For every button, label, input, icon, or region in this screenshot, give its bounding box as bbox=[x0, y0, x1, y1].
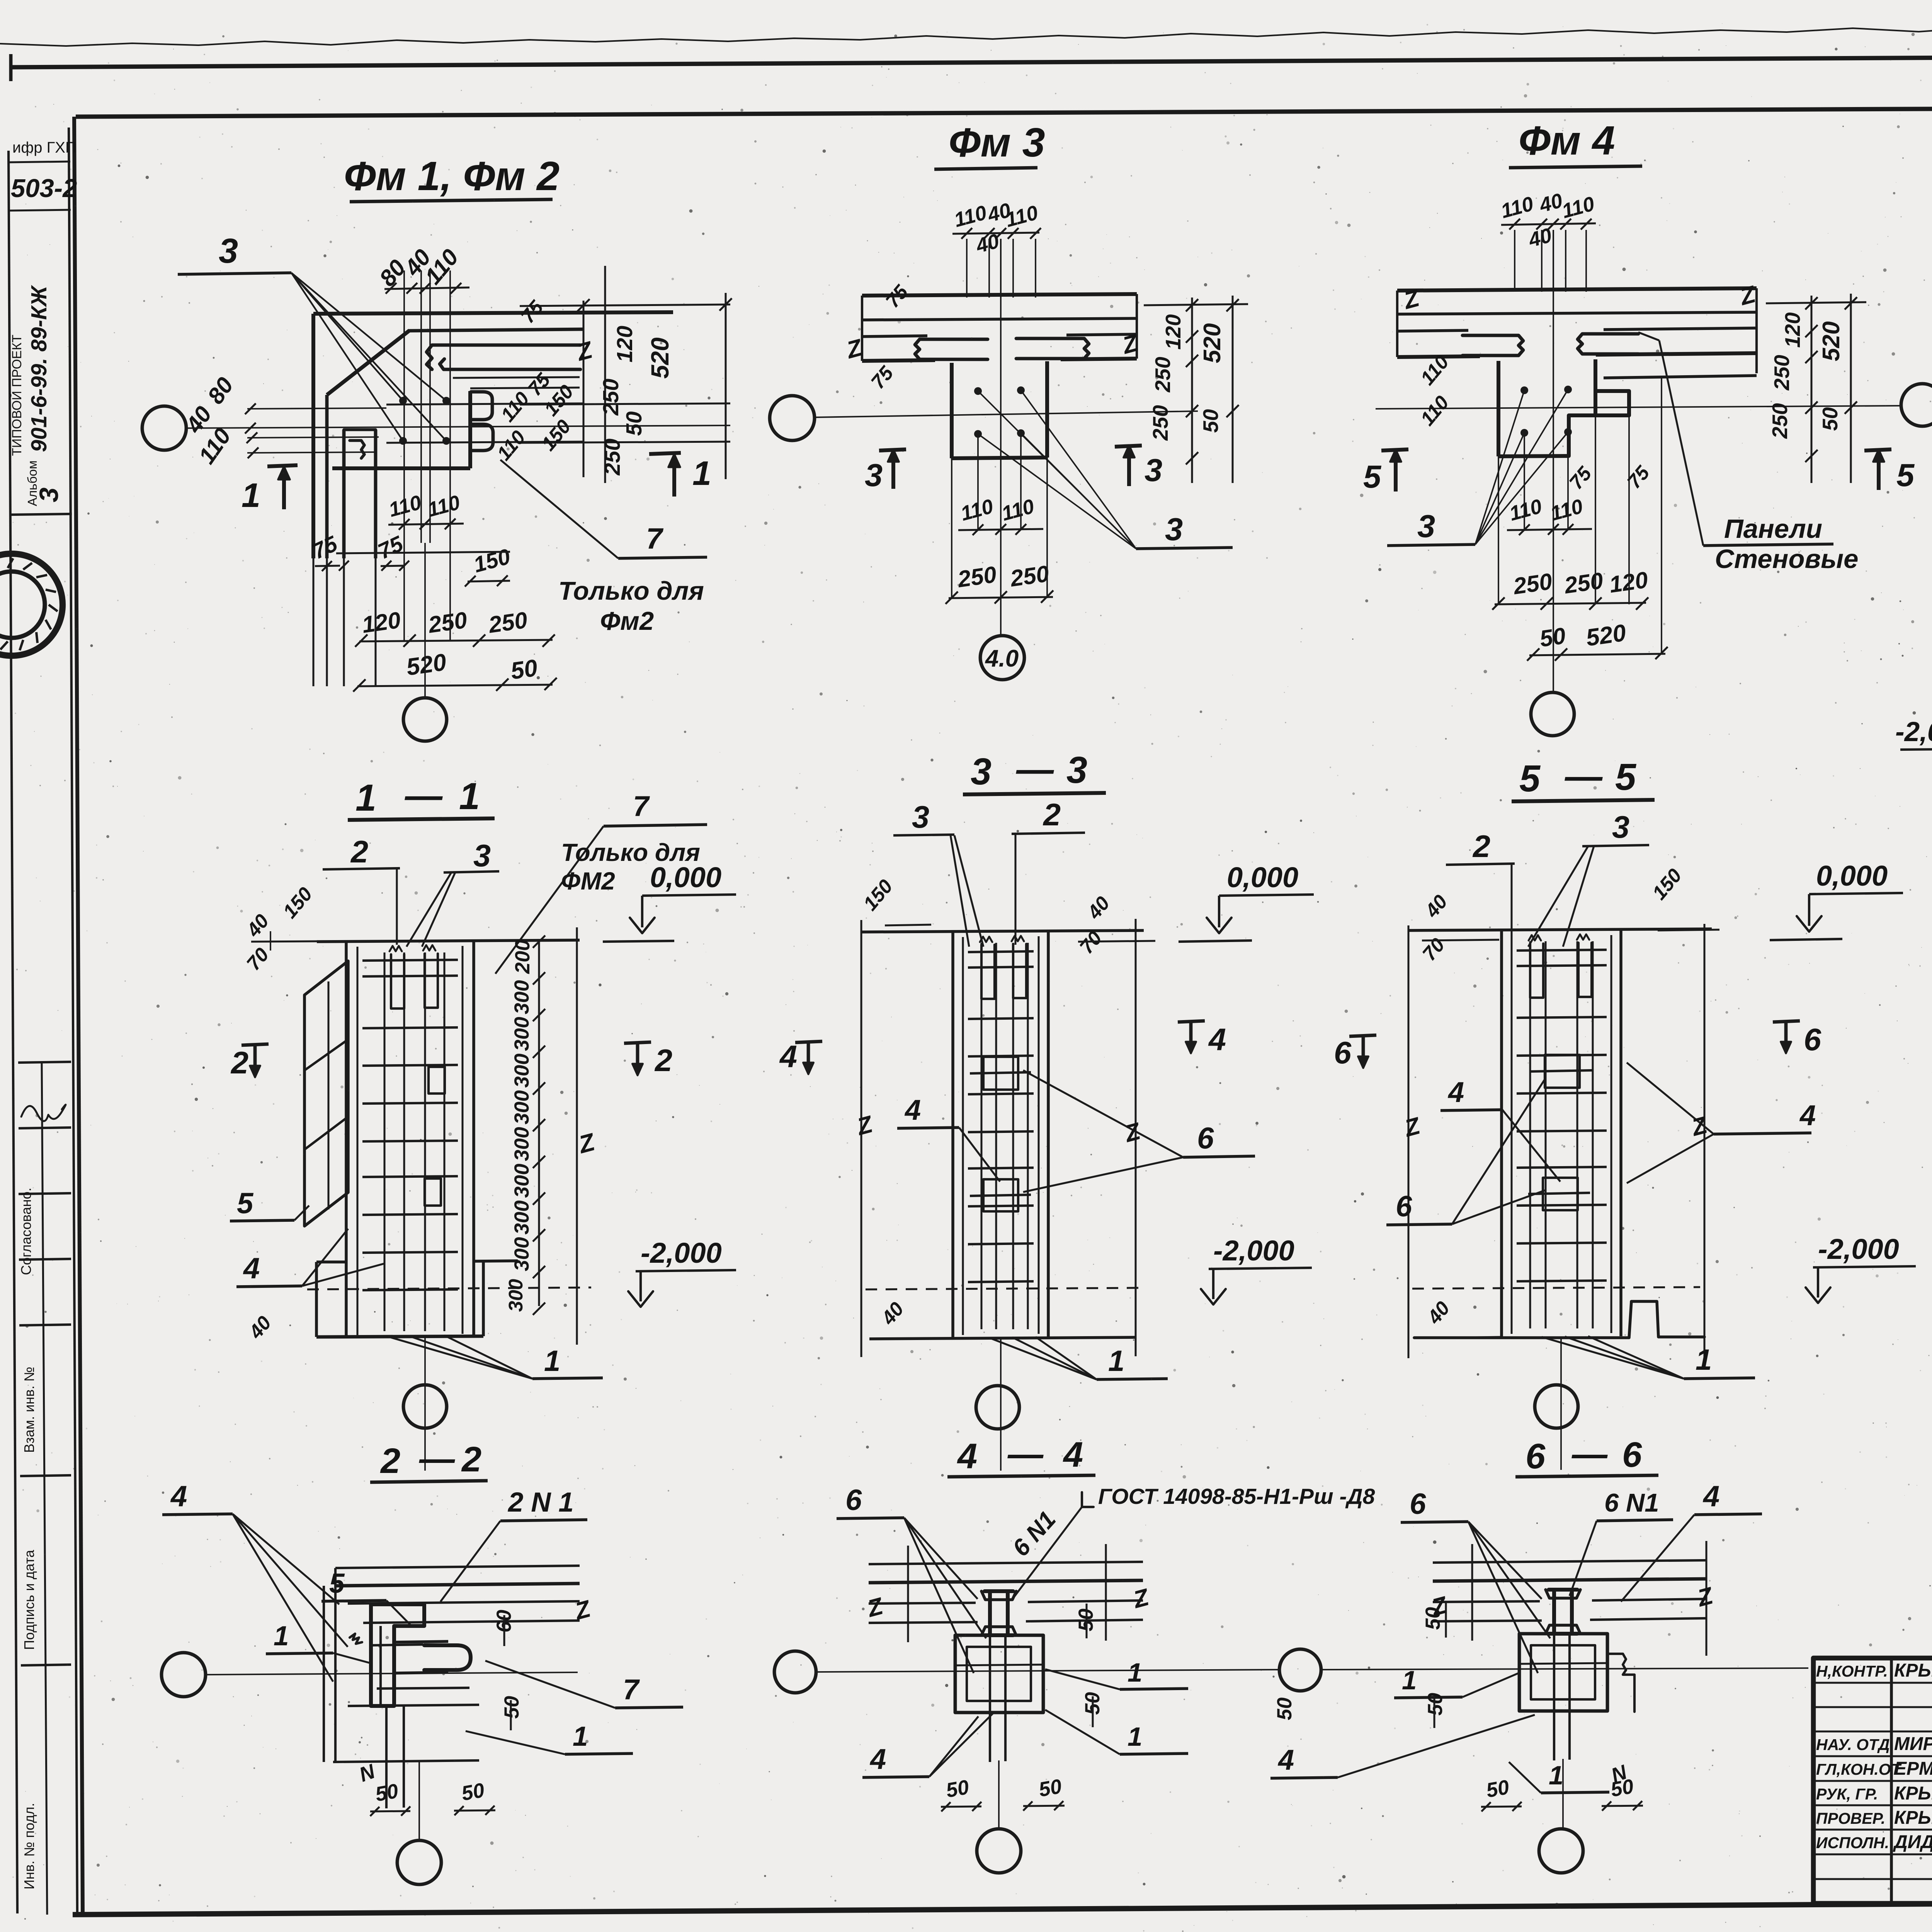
svg-text:-2,000: -2,000 bbox=[1818, 1233, 1899, 1265]
svg-text:50: 50 bbox=[622, 411, 646, 436]
svg-text:КРЫЛОВА: КРЫЛОВА bbox=[1894, 1783, 1932, 1804]
svg-text:N: N bbox=[356, 1760, 379, 1786]
axis circle bottom 3-3 bbox=[976, 1386, 1019, 1429]
4-4 I-beam bbox=[985, 1591, 1013, 1635]
svg-text:6: 6 bbox=[1804, 1022, 1821, 1057]
svg-text:110: 110 bbox=[420, 244, 464, 289]
1-1 foundation bottom bbox=[316, 1260, 346, 1264]
svg-text:110: 110 bbox=[958, 495, 996, 526]
svg-text:150: 150 bbox=[537, 415, 575, 455]
svg-text:1: 1 bbox=[1128, 1722, 1142, 1752]
svg-text:150: 150 bbox=[279, 883, 316, 922]
svg-text:300: 300 bbox=[510, 980, 533, 1014]
svg-text:—: — bbox=[419, 1439, 455, 1478]
3-3 mid plate upper bbox=[983, 1057, 1018, 1090]
svg-text:250: 250 bbox=[426, 607, 468, 638]
svg-text:120: 120 bbox=[612, 326, 637, 362]
1-1 wall panel left bbox=[304, 961, 348, 1226]
svg-text:901-6-99. 89-КЖ: 901-6-99. 89-КЖ bbox=[27, 285, 51, 452]
svg-text:Z: Z bbox=[1130, 1584, 1152, 1614]
svg-text:6: 6 bbox=[1334, 1036, 1352, 1070]
svg-text:4: 4 bbox=[869, 1743, 886, 1775]
Fm4 wall band bbox=[1397, 288, 1757, 291]
3-3 hook left bbox=[981, 945, 995, 999]
svg-text:40: 40 bbox=[1420, 891, 1452, 922]
svg-text:520: 520 bbox=[1199, 323, 1226, 363]
sidebar right edge line 1 bbox=[69, 128, 77, 1913]
svg-text:ИСПОЛН.: ИСПОЛН. bbox=[1816, 1834, 1889, 1852]
axis line horizontal bbox=[187, 425, 730, 428]
svg-text:Фм 4: Фм 4 bbox=[1519, 118, 1615, 163]
4-4 column below bbox=[955, 1635, 1043, 1713]
title block outer bbox=[1813, 1658, 1932, 1903]
svg-text:1: 1 bbox=[241, 476, 260, 514]
svg-text:Подпись и дата: Подпись и дата bbox=[21, 1549, 37, 1650]
2-2 joint profile bbox=[371, 1604, 424, 1706]
svg-text:ТИПОВОЙ ПРОЕКТ: ТИПОВОЙ ПРОЕКТ bbox=[10, 335, 24, 456]
svg-text:Z: Z bbox=[1121, 1118, 1144, 1148]
svg-text:2: 2 bbox=[461, 1440, 481, 1479]
svg-text:4: 4 bbox=[1277, 1744, 1294, 1776]
svg-text:Фм 3: Фм 3 bbox=[949, 120, 1045, 165]
svg-text:4: 4 bbox=[957, 1437, 977, 1476]
axis vertical Fm4 bbox=[1553, 230, 1554, 692]
svg-text:75: 75 bbox=[1565, 462, 1596, 493]
svg-text:110: 110 bbox=[999, 495, 1037, 526]
svg-text:РУК, ГР.: РУК, ГР. bbox=[1816, 1785, 1878, 1803]
axis circle bottom 2-2 bbox=[397, 1840, 441, 1884]
axis circle left 2-2 bbox=[162, 1653, 206, 1697]
svg-text:Стеновые: Стеновые bbox=[1715, 544, 1858, 574]
svg-text:7: 7 bbox=[633, 790, 650, 822]
extension vertical bbox=[403, 270, 405, 543]
svg-text:—: — bbox=[1007, 1434, 1044, 1474]
svg-text:6: 6 bbox=[1622, 1435, 1642, 1475]
svg-text:300: 300 bbox=[510, 1017, 533, 1051]
svg-text:200: 200 bbox=[511, 940, 534, 974]
svg-text:2 N 1: 2 N 1 bbox=[507, 1487, 574, 1518]
axis vertical Fm3 bbox=[1000, 239, 1002, 635]
svg-text:3: 3 bbox=[971, 750, 992, 793]
svg-text:ифр ГХП: ифр ГХП bbox=[12, 139, 77, 156]
svg-text:110: 110 bbox=[952, 201, 989, 232]
svg-text:4: 4 bbox=[904, 1094, 921, 1126]
svg-text:1: 1 bbox=[459, 775, 480, 817]
svg-text:Z: Z bbox=[573, 337, 596, 367]
svg-text:70: 70 bbox=[242, 944, 273, 975]
sidebar signature boxes bbox=[18, 1062, 71, 1063]
channel right bbox=[1016, 338, 1089, 359]
2-2 lower part bbox=[385, 1706, 388, 1808]
svg-text:6: 6 bbox=[845, 1484, 862, 1517]
channel profile top bbox=[427, 345, 580, 369]
svg-text:7: 7 bbox=[623, 1673, 640, 1706]
5-5 hook right bbox=[1578, 943, 1592, 997]
svg-text:—: — bbox=[1571, 1434, 1608, 1474]
svg-text:120: 120 bbox=[1781, 312, 1804, 348]
svg-text:250: 250 bbox=[1148, 405, 1172, 441]
svg-text:Z: Z bbox=[1401, 1112, 1423, 1143]
svg-text:6: 6 bbox=[1396, 1190, 1412, 1223]
svg-text:0,000: 0,000 bbox=[650, 861, 721, 893]
Fm3 right dims bbox=[1191, 298, 1193, 483]
3-3 bottom bbox=[869, 1337, 1136, 1339]
svg-text:300: 300 bbox=[510, 1090, 533, 1124]
svg-text:-2,000: -2,000 bbox=[1213, 1235, 1294, 1267]
svg-text:150: 150 bbox=[471, 544, 513, 578]
3-3 hook right bbox=[1013, 944, 1026, 998]
svg-text:250: 250 bbox=[1511, 568, 1553, 599]
svg-text:250: 250 bbox=[1151, 357, 1175, 393]
svg-text:50: 50 bbox=[1199, 409, 1223, 433]
svg-text:ПРОВЕР.: ПРОВЕР. bbox=[1816, 1810, 1885, 1827]
svg-text:40: 40 bbox=[244, 1312, 276, 1343]
svg-text:2: 2 bbox=[1472, 829, 1490, 864]
svg-text:4: 4 bbox=[1063, 1435, 1083, 1475]
svg-text:КРЫЛОВА: КРЫЛОВА bbox=[1894, 1808, 1932, 1828]
axis circle bottom 6-6 bbox=[1539, 1829, 1583, 1873]
Fm1 rebar dots bbox=[399, 397, 407, 405]
svg-text:110: 110 bbox=[1560, 192, 1597, 223]
svg-text:150: 150 bbox=[859, 875, 897, 915]
svg-text:4: 4 bbox=[1702, 1480, 1719, 1513]
4-4 GOST label bbox=[1082, 1492, 1094, 1507]
2-2 panel lines bbox=[335, 1566, 580, 1568]
6-6 axis line bbox=[1322, 1668, 1808, 1670]
svg-text:Z: Z bbox=[1119, 330, 1141, 360]
svg-text:4: 4 bbox=[1208, 1022, 1226, 1057]
svg-text:1: 1 bbox=[1549, 1760, 1563, 1790]
Fm1 section mark 1 right bbox=[649, 453, 681, 454]
extension vertical bbox=[429, 270, 431, 543]
svg-text:3: 3 bbox=[1145, 452, 1162, 488]
svg-text:—: — bbox=[405, 774, 443, 816]
svg-text:3: 3 bbox=[1165, 511, 1183, 547]
svg-text:1: 1 bbox=[573, 1721, 588, 1752]
svg-text:6: 6 bbox=[1526, 1437, 1546, 1476]
svg-text:250: 250 bbox=[1770, 355, 1794, 391]
svg-text:75: 75 bbox=[374, 531, 407, 564]
paper speckles bbox=[1436, 31, 1438, 33]
svg-text:50: 50 bbox=[1037, 1775, 1063, 1801]
svg-text:40: 40 bbox=[877, 1298, 908, 1329]
svg-text:300: 300 bbox=[505, 1279, 527, 1312]
svg-text:2: 2 bbox=[654, 1043, 672, 1078]
svg-text:7: 7 bbox=[646, 522, 664, 555]
svg-text:-2,000: -2,000 bbox=[641, 1237, 722, 1269]
svg-text:3: 3 bbox=[1066, 749, 1087, 791]
svg-text:110: 110 bbox=[493, 426, 530, 464]
svg-text:110: 110 bbox=[1416, 391, 1453, 430]
svg-text:4: 4 bbox=[1799, 1099, 1816, 1131]
sidebar top box divider1 bbox=[9, 162, 70, 162]
6-6 I-beam bbox=[1549, 1590, 1577, 1634]
svg-text:4.0: 4.0 bbox=[985, 645, 1019, 672]
svg-text:3: 3 bbox=[34, 488, 64, 502]
svg-text:520: 520 bbox=[405, 649, 448, 681]
svg-text:Фм2: Фм2 bbox=[600, 607, 654, 636]
svg-text:ГЛ,КОН.ОТ: ГЛ,КОН.ОТ bbox=[1816, 1760, 1902, 1778]
svg-text:1: 1 bbox=[544, 1345, 560, 1378]
title underline bbox=[350, 199, 553, 202]
svg-text:250: 250 bbox=[1008, 561, 1050, 592]
3-3 mid plate lower bbox=[983, 1179, 1018, 1211]
svg-text:4: 4 bbox=[1447, 1076, 1464, 1108]
svg-text:250: 250 bbox=[1768, 403, 1792, 439]
svg-text:ФМ2: ФМ2 bbox=[561, 867, 615, 895]
svg-text:Z: Z bbox=[1694, 1582, 1716, 1612]
1-1 dim ladder right bbox=[538, 942, 540, 1306]
svg-text:1: 1 bbox=[1402, 1665, 1417, 1695]
svg-text:520: 520 bbox=[1584, 619, 1628, 651]
1-1 mid plates bbox=[429, 1067, 445, 1094]
round stamp bbox=[0, 554, 63, 656]
svg-text:50: 50 bbox=[1485, 1776, 1511, 1802]
svg-text:Z: Z bbox=[575, 1128, 599, 1159]
svg-text:ДИДЕНКО: ДИДЕНКО bbox=[1893, 1832, 1932, 1852]
svg-text:40: 40 bbox=[1423, 1297, 1454, 1328]
svg-text:110: 110 bbox=[1498, 192, 1536, 223]
Fm3 wall band bbox=[862, 294, 1137, 296]
svg-text:50: 50 bbox=[944, 1776, 971, 1802]
6-6 column below bbox=[1519, 1634, 1607, 1711]
4-4 axis circles bbox=[774, 1651, 816, 1693]
svg-text:Z: Z bbox=[1688, 1112, 1711, 1142]
svg-text:300: 300 bbox=[510, 1237, 533, 1271]
svg-text:Взам. инв. №: Взам. инв. № bbox=[21, 1367, 37, 1453]
svg-text:300: 300 bbox=[510, 1164, 533, 1198]
svg-text:1: 1 bbox=[1128, 1658, 1142, 1687]
sidebar top box divider2 bbox=[10, 210, 71, 211]
Fm3 axis circle left bbox=[770, 396, 815, 440]
axis circle bottom 4-4 bbox=[977, 1829, 1021, 1873]
svg-text:520: 520 bbox=[646, 337, 674, 379]
6-6 step right bbox=[1607, 1654, 1634, 1712]
5-5 mid plate upper bbox=[1545, 1055, 1580, 1088]
svg-text:110: 110 bbox=[386, 491, 424, 522]
svg-text:3: 3 bbox=[912, 800, 929, 835]
svg-text:5: 5 bbox=[1519, 757, 1541, 799]
svg-text:Согласовано.: Согласовано. bbox=[18, 1188, 34, 1275]
svg-text:300: 300 bbox=[510, 1201, 533, 1235]
svg-text:НАУ. ОТД: НАУ. ОТД bbox=[1816, 1736, 1890, 1753]
svg-text:3: 3 bbox=[865, 457, 883, 493]
svg-text:2: 2 bbox=[1043, 798, 1061, 832]
svg-text:120: 120 bbox=[360, 607, 402, 638]
svg-text:300: 300 bbox=[510, 1054, 533, 1088]
Fm4 column bbox=[1497, 361, 1500, 456]
column step right bbox=[1569, 391, 1629, 456]
svg-text:Н,КОНТР.: Н,КОНТР. bbox=[1816, 1662, 1888, 1680]
svg-text:120: 120 bbox=[1161, 314, 1185, 350]
sidebar box divider vertical bbox=[42, 1063, 47, 1915]
6-6 panel lines bbox=[1433, 1560, 1707, 1563]
svg-text:1: 1 bbox=[1696, 1344, 1712, 1376]
svg-text:520: 520 bbox=[1818, 321, 1845, 361]
svg-text:—: — bbox=[1016, 748, 1054, 790]
svg-text:Z: Z bbox=[854, 1111, 876, 1141]
axis circle bottom 1-1 bbox=[403, 1385, 447, 1428]
5-5 walls and column bbox=[1408, 925, 1410, 1358]
5-5 mid plate lower bbox=[1543, 1178, 1578, 1210]
svg-text:—: — bbox=[1565, 755, 1603, 797]
svg-text:50: 50 bbox=[1538, 622, 1567, 652]
svg-text:50: 50 bbox=[1422, 1607, 1444, 1630]
svg-text:3: 3 bbox=[1612, 810, 1629, 845]
svg-text:75: 75 bbox=[867, 362, 898, 393]
axis circle bottom Fm3 4.0 bbox=[980, 636, 1024, 680]
5-5 hook left bbox=[1530, 944, 1543, 998]
svg-text:40: 40 bbox=[1083, 892, 1114, 923]
1-1 column section bbox=[317, 940, 580, 942]
top thick border line bbox=[11, 54, 1932, 67]
axis circle bottom Fm4 bbox=[1531, 692, 1574, 736]
svg-text:5: 5 bbox=[1896, 457, 1915, 493]
4-4 panel lines bbox=[869, 1562, 1143, 1564]
svg-text:50: 50 bbox=[460, 1779, 486, 1805]
svg-text:ГОСТ 14098-85-Н1-Рш -Д8: ГОСТ 14098-85-Н1-Рш -Д8 bbox=[1098, 1484, 1375, 1509]
svg-text:2: 2 bbox=[350, 835, 368, 869]
svg-text:0,000: 0,000 bbox=[1816, 860, 1888, 892]
left channel profile bbox=[344, 430, 376, 458]
axis circle left Fm1 bbox=[142, 406, 186, 450]
signature table bbox=[1890, 1658, 1893, 1903]
svg-text:1: 1 bbox=[1108, 1345, 1124, 1378]
svg-text:70: 70 bbox=[1418, 934, 1449, 965]
svg-text:Только для: Только для bbox=[558, 577, 704, 605]
drawing frame bottom bbox=[73, 1900, 1932, 1915]
svg-text:50: 50 bbox=[374, 1779, 400, 1806]
svg-text:50: 50 bbox=[1273, 1697, 1296, 1720]
svg-text:2: 2 bbox=[380, 1441, 400, 1481]
svg-text:5: 5 bbox=[329, 1568, 345, 1599]
extension vertical bbox=[449, 270, 451, 543]
svg-text:3: 3 bbox=[1417, 508, 1435, 544]
svg-text:50: 50 bbox=[509, 655, 539, 685]
top scan edge wavy line bbox=[0, 22, 1932, 46]
1-1 anchor hooks bbox=[391, 954, 404, 1009]
svg-text:1: 1 bbox=[355, 777, 376, 819]
svg-text:Фм 1, Фм 2: Фм 1, Фм 2 bbox=[344, 153, 560, 199]
svg-text:Z: Z bbox=[864, 1593, 886, 1623]
svg-text:80: 80 bbox=[202, 372, 238, 408]
drawing frame left bbox=[74, 117, 83, 1913]
svg-text:250: 250 bbox=[956, 561, 998, 592]
svg-text:150: 150 bbox=[1648, 864, 1686, 904]
svg-text:75: 75 bbox=[1623, 461, 1654, 493]
svg-text:2: 2 bbox=[230, 1046, 248, 1080]
drawing frame top bbox=[76, 106, 1932, 117]
svg-text:50: 50 bbox=[1609, 1775, 1635, 1801]
svg-text:250: 250 bbox=[599, 379, 623, 416]
Fm4 right dims bbox=[1811, 296, 1813, 483]
svg-text:6 N1: 6 N1 bbox=[1007, 1506, 1061, 1561]
svg-text:ЕРМАКОВ: ЕРМАКОВ bbox=[1894, 1759, 1932, 1779]
svg-text:-2,000: -2,000 bbox=[1895, 717, 1932, 747]
svg-text:КРЫЛОВА: КРЫЛОВА bbox=[1894, 1660, 1932, 1681]
channel right of col bbox=[1578, 334, 1638, 354]
svg-text:40: 40 bbox=[242, 910, 273, 941]
Fm3 column bbox=[950, 363, 954, 458]
5-5 bottom with notch bbox=[1414, 1301, 1704, 1338]
svg-text:5: 5 bbox=[1615, 756, 1637, 798]
svg-text:5: 5 bbox=[237, 1187, 254, 1220]
svg-text:3: 3 bbox=[473, 838, 491, 873]
extension vertical bbox=[420, 270, 422, 543]
svg-text:503-2: 503-2 bbox=[11, 174, 77, 203]
svg-text:3: 3 bbox=[219, 232, 238, 270]
axis circle bottom Fm1 bbox=[403, 698, 447, 741]
Fm1 column with groove bbox=[471, 392, 492, 420]
svg-text:250: 250 bbox=[600, 439, 625, 476]
3-3 walls and column bbox=[861, 920, 862, 1357]
left outer vertical bbox=[9, 151, 17, 1913]
Fm1 right dimension lines bbox=[583, 301, 585, 477]
svg-text:6 N1: 6 N1 bbox=[1604, 1488, 1659, 1517]
Fm1 wall outline bbox=[313, 312, 673, 314]
svg-text:50: 50 bbox=[1818, 407, 1842, 431]
svg-text:4: 4 bbox=[779, 1039, 797, 1074]
channel left bbox=[915, 339, 988, 359]
axis circle bottom 5-5 bbox=[1535, 1385, 1578, 1428]
svg-text:250: 250 bbox=[1562, 568, 1604, 599]
Fm4 axis line + circle right bbox=[1376, 406, 1900, 409]
svg-text:1: 1 bbox=[274, 1621, 289, 1651]
svg-text:МИРОШНИК: МИРОШНИК bbox=[1894, 1734, 1932, 1754]
svg-text:6: 6 bbox=[1197, 1121, 1214, 1155]
svg-text:110: 110 bbox=[497, 388, 534, 426]
sidebar top box bottom bbox=[11, 514, 72, 515]
svg-text:1: 1 bbox=[692, 454, 711, 492]
svg-text:0,000: 0,000 bbox=[1227, 861, 1298, 893]
svg-text:4: 4 bbox=[243, 1252, 260, 1285]
svg-text:6: 6 bbox=[1410, 1488, 1426, 1520]
svg-text:75: 75 bbox=[881, 281, 913, 312]
svg-text:75: 75 bbox=[517, 296, 548, 327]
channel left of col bbox=[1463, 335, 1523, 355]
Fm1 inner horizontal thin lines bbox=[386, 403, 583, 405]
svg-text:4: 4 bbox=[170, 1480, 187, 1513]
svg-text:300: 300 bbox=[510, 1127, 533, 1161]
svg-text:250: 250 bbox=[486, 607, 529, 638]
svg-text:Инв. № подл.: Инв. № подл. bbox=[21, 1803, 37, 1889]
svg-text:5: 5 bbox=[1363, 459, 1382, 495]
